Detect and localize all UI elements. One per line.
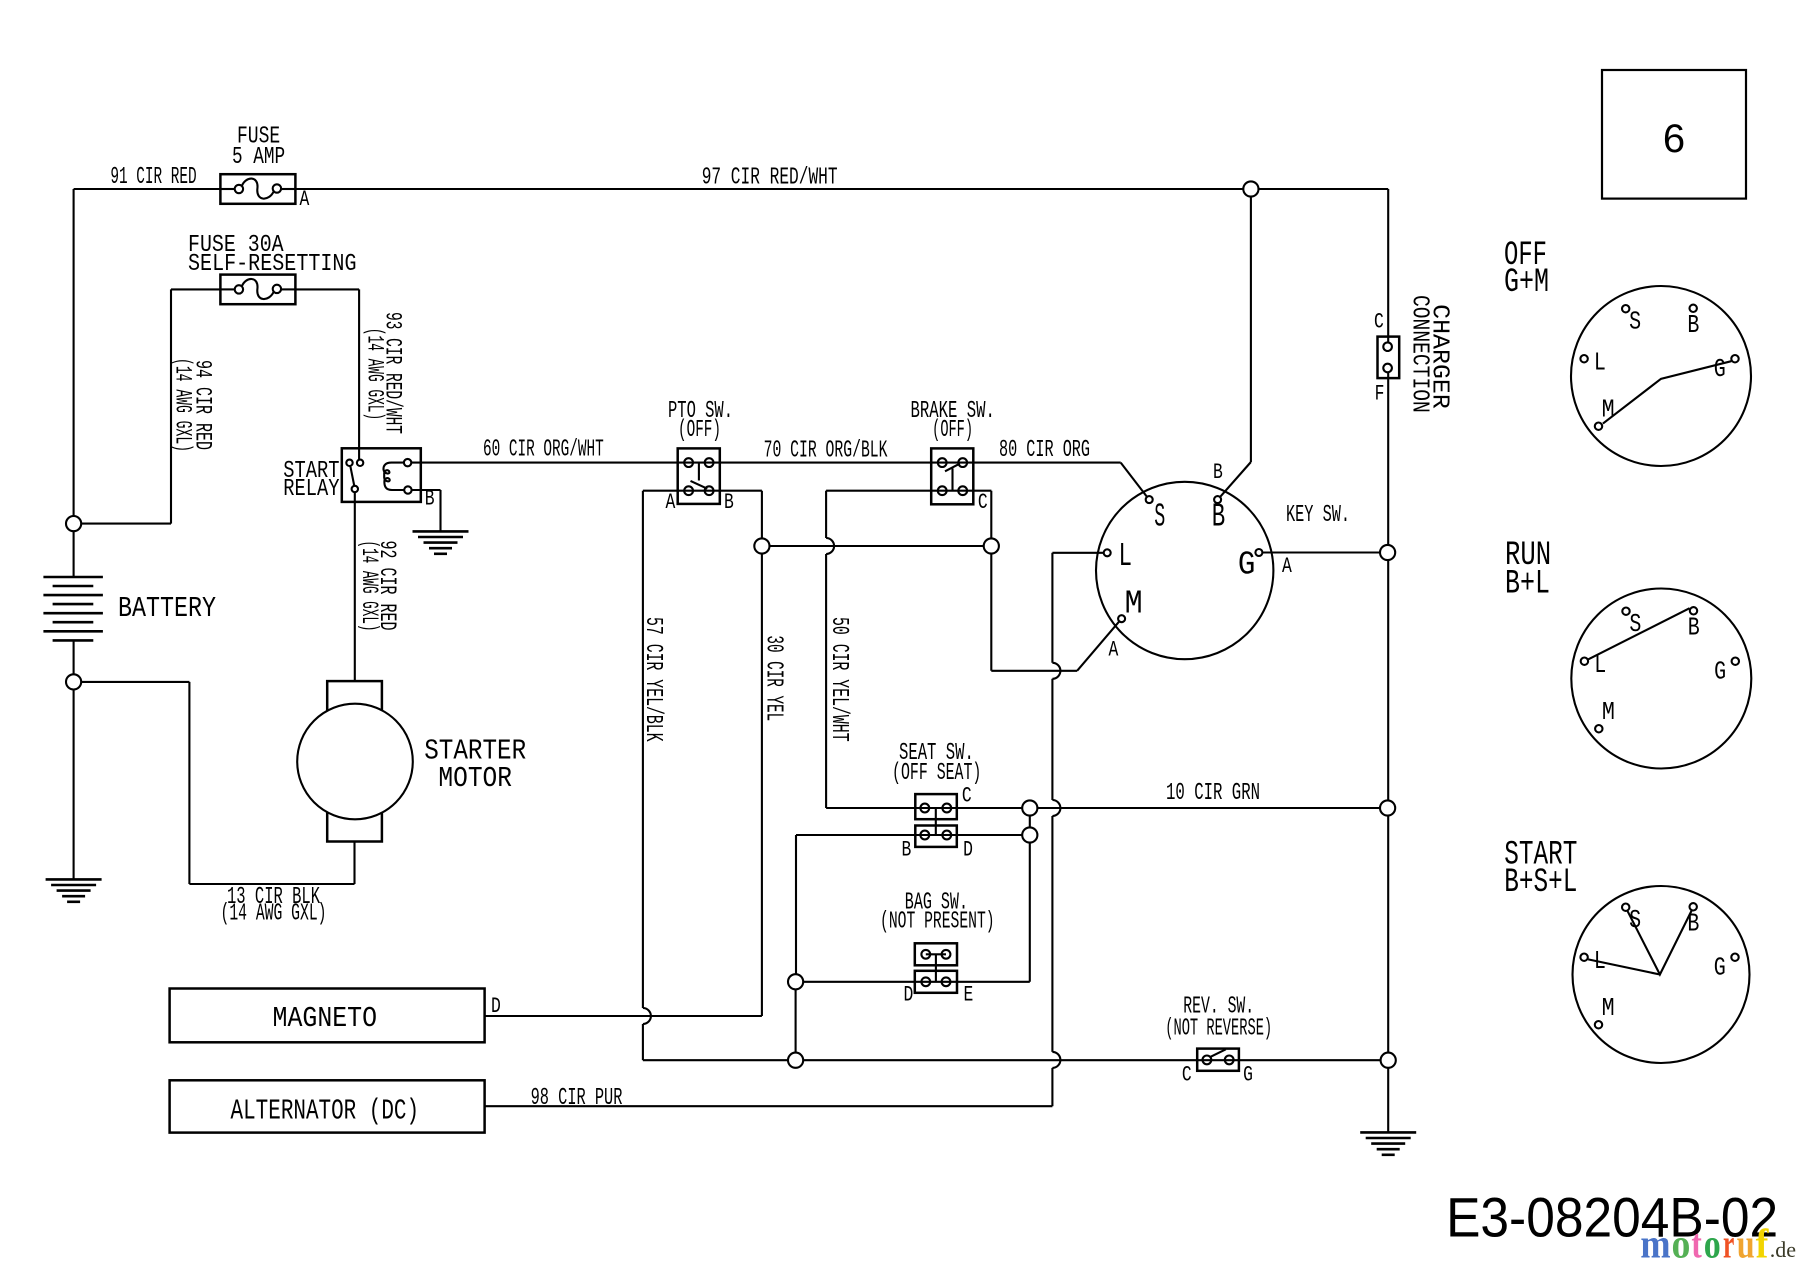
brake bottom row wire: [826, 490, 991, 492]
RUN terminal S: [1622, 608, 1629, 615]
svg-text:D: D: [963, 838, 973, 863]
RUN terminal B: [1690, 607, 1697, 614]
svg-text:G+M: G+M: [1504, 264, 1549, 302]
wire 10 CIR GRN row (seat C): [826, 807, 1388, 809]
svg-text:B+S+L: B+S+L: [1504, 864, 1577, 902]
wire 94 CIR RED horizontal: [74, 523, 171, 525]
svg-text:MOTOR: MOTOR: [438, 762, 512, 795]
wire 60 CIR ORG/WHT: [411, 462, 677, 464]
svg-text:B: B: [1687, 909, 1699, 939]
starter motor M1 body: [297, 704, 413, 820]
svg-text:(14 AWG GXL): (14 AWG GXL): [170, 358, 196, 452]
wire 70 CIR ORG/BLK: [720, 462, 931, 464]
brake top row wire: [931, 462, 973, 464]
bag internal link: [935, 954, 937, 982]
brake pin C (bottom-right): [958, 486, 967, 495]
junction 10 CIR GRN / right bus: [1380, 800, 1395, 815]
brake pin bottom-left: [938, 486, 947, 495]
charger pin F: [1383, 364, 1392, 373]
key terminal S: [1146, 496, 1153, 503]
key switch body circle: [1096, 482, 1273, 659]
brake pin top-right: [958, 458, 967, 467]
svg-text:C: C: [978, 490, 988, 515]
wire 57 hop over magneto wire: [643, 1008, 651, 1024]
PTO pin A (bottom-left): [684, 486, 693, 495]
seat pin top-left: [920, 804, 929, 813]
svg-text:L: L: [1594, 347, 1606, 377]
bag pin D (bottom-left): [921, 977, 930, 986]
wire right bus upper (to charger C): [1387, 189, 1389, 343]
svg-text:BATTERY: BATTERY: [118, 592, 216, 625]
wire 50 CIR YEL/WHT upper: [825, 491, 827, 538]
svg-text:6: 6: [1663, 117, 1685, 161]
junction seat D row / bag E drop: [1022, 827, 1037, 842]
key position circle OFF: [1571, 286, 1751, 466]
wire brake-C down to M row: [990, 491, 992, 671]
svg-text:u: u: [1737, 1221, 1755, 1267]
brake internal link: [951, 468, 953, 490]
key terminal L: [1104, 549, 1111, 556]
alternator box: [170, 1080, 485, 1132]
wire right bus lower (charger F to ground): [1387, 372, 1389, 1132]
wire L hop over rev row: [1052, 1052, 1060, 1068]
svg-text:(OFF): (OFF): [678, 417, 721, 444]
svg-text:A: A: [666, 490, 676, 515]
wire 13 CIR BLK h1: [74, 681, 190, 683]
wire 98 CIR PUR: [485, 1105, 1052, 1107]
svg-text:97 CIR RED/WHT: 97 CIR RED/WHT: [702, 165, 838, 192]
svg-text:A: A: [300, 187, 310, 212]
RUN terminal G: [1732, 658, 1739, 665]
wire 57 CIR YEL/BLK vertical upper: [642, 491, 644, 1008]
relay contact pin (fixed): [346, 460, 352, 466]
svg-text:G: G: [1243, 1063, 1253, 1088]
svg-text:60 CIR ORG/WHT: 60 CIR ORG/WHT: [483, 436, 604, 463]
svg-text:10 CIR GRN: 10 CIR GRN: [1166, 780, 1260, 807]
svg-text:(14 AWG GXL): (14 AWG GXL): [221, 901, 327, 928]
svg-text:KEY SW.: KEY SW.: [1286, 502, 1350, 529]
svg-text:50 CIR YEL/WHT: 50 CIR YEL/WHT: [825, 617, 852, 742]
svg-text:t: t: [1691, 1221, 1702, 1267]
svg-text:5 AMP: 5 AMP: [232, 144, 285, 171]
OFF contact line G+M: [1603, 361, 1731, 423]
svg-text:80 CIR ORG: 80 CIR ORG: [999, 437, 1090, 464]
svg-text:C: C: [962, 784, 972, 809]
svg-text:L: L: [1119, 538, 1133, 575]
PTO pin top-left: [684, 458, 693, 467]
rev pin C: [1203, 1056, 1212, 1065]
wire M row horizontal: [991, 670, 1077, 672]
key terminal G: [1255, 549, 1262, 556]
svg-text:70 CIR ORG/BLK: 70 CIR ORG/BLK: [764, 438, 888, 465]
wire 94 CIR RED vertical: [170, 289, 172, 523]
bag top row link: [926, 953, 946, 955]
svg-text:B: B: [902, 838, 912, 863]
junction key A / right bus: [1380, 545, 1395, 560]
wire 13 CIR BLK v: [188, 682, 190, 884]
svg-text:(14 AWG GXL): (14 AWG GXL): [356, 541, 382, 632]
START terminal L: [1580, 954, 1587, 961]
RUN contact line B+L: [1588, 608, 1690, 659]
svg-text:M: M: [1602, 993, 1615, 1023]
OFF terminal M: [1595, 423, 1602, 430]
PTO switch blade (open): [691, 481, 708, 489]
svg-text:f: f: [1756, 1221, 1770, 1267]
brake switch S2 box: [931, 448, 973, 504]
wire 93 CIR RED/WHT horizontal: [295, 288, 359, 290]
wire 50 hop over 546 row: [826, 538, 834, 554]
junction bag D row / 57 row riser: [788, 974, 803, 989]
svg-text:57 CIR YEL/BLK: 57 CIR YEL/BLK: [639, 617, 666, 742]
starter motor M1 frame: [327, 681, 382, 841]
svg-text:98 CIR PUR: 98 CIR PUR: [531, 1085, 623, 1112]
wire relay pin B to ground h: [412, 489, 441, 491]
bag pin top-right: [942, 950, 951, 959]
wire battery positive drop: [73, 189, 75, 577]
PTO switch S1 box: [678, 448, 720, 504]
wire 92 CIR RED (relay to starter): [354, 492, 356, 681]
junction magneto row / riser: [788, 1053, 803, 1068]
relay switch blade: [350, 466, 354, 486]
brake pin top-left: [938, 458, 947, 467]
PTO pin top-right: [705, 458, 714, 467]
svg-text:B: B: [1212, 498, 1226, 535]
wire 91 CIR RED (battery + to fuse): [74, 188, 221, 190]
junction battery - / 13 CIR BLK: [66, 674, 81, 689]
svg-text:(14 AWG GXL): (14 AWG GXL): [362, 328, 388, 420]
svg-text:MAGNETO: MAGNETO: [273, 1002, 378, 1035]
PTO internal link: [698, 463, 700, 481]
svg-text:G: G: [1714, 657, 1726, 687]
PTO top row wire: [678, 462, 720, 464]
START terminal M: [1595, 1021, 1602, 1028]
svg-text:o: o: [1704, 1221, 1721, 1267]
wire 13 CIR BLK h2: [189, 883, 354, 885]
svg-text:G: G: [1714, 953, 1726, 983]
svg-text:M: M: [1125, 586, 1143, 623]
reverse switch S5 box: [1197, 1049, 1239, 1071]
svg-text:30 CIR YEL: 30 CIR YEL: [760, 635, 787, 721]
svg-text:SELF-RESETTING: SELF-RESETTING: [188, 251, 357, 278]
relay coil pin top: [404, 459, 411, 466]
junction 97 row / key B: [1243, 181, 1258, 196]
magneto box: [170, 989, 485, 1043]
seat pin B (bottom-left): [920, 831, 929, 840]
ground (right bus): [1360, 1132, 1416, 1154]
svg-text:S: S: [1629, 905, 1641, 935]
OFF terminal L: [1580, 355, 1587, 362]
junction 30 CIR YEL / seat feed: [754, 538, 769, 553]
fuse F2 30A self-resetting: [220, 275, 295, 305]
RUN terminal M: [1595, 725, 1602, 732]
rev pin G: [1225, 1056, 1234, 1065]
brake switch blade (open): [945, 464, 960, 472]
wire 80 CIR ORG diagonal to key S: [1121, 463, 1147, 497]
svg-text:D: D: [904, 983, 914, 1008]
wire L vertical seg2: [1051, 679, 1053, 800]
wire 57 CIR YEL/BLK vertical lower: [642, 1024, 644, 1060]
svg-text:F: F: [1375, 382, 1385, 407]
START terminal S: [1622, 904, 1629, 911]
svg-text:B: B: [1688, 613, 1700, 643]
svg-text:RELAY: RELAY: [283, 476, 339, 503]
wire key B drop from 97 row: [1250, 189, 1252, 462]
wire key G to charger line (A): [1262, 551, 1388, 553]
wire 57 to junction with magneto row: [643, 1059, 796, 1061]
relay contact pin (input 93): [357, 460, 363, 466]
svg-text:G: G: [1238, 546, 1256, 583]
wire L vertical seg4: [1051, 1068, 1053, 1106]
wire 80 CIR ORG: [973, 462, 1120, 464]
charger connection plug box: [1378, 337, 1400, 379]
START contact lines B+S: [1627, 911, 1691, 975]
wire 93 CIR RED/WHT vertical: [358, 289, 360, 459]
junction battery + / 94 CIR RED: [66, 516, 81, 531]
wire relay pin B to ground v: [439, 490, 441, 531]
relay contact pin (output 92): [352, 486, 358, 492]
junction rev G / right bus: [1381, 1053, 1396, 1068]
key position circle START: [1573, 886, 1750, 1063]
wire PTO-B to brake-C row: [762, 545, 991, 547]
svg-text:E: E: [964, 983, 974, 1008]
bag bottom row wire (D-E): [796, 981, 1030, 983]
svg-text:r: r: [1723, 1221, 1734, 1267]
ground (start relay): [413, 531, 469, 553]
wire rev G to ground line: [1239, 1059, 1388, 1061]
junction seat C row / bag E drop: [1022, 800, 1037, 815]
svg-text:B: B: [1213, 460, 1223, 485]
svg-text:(NOT PRESENT): (NOT PRESENT): [880, 909, 995, 936]
svg-text:S: S: [1629, 307, 1641, 337]
wire 30 CIR YEL vertical: [761, 491, 763, 1016]
wire key B diagonal: [1220, 462, 1251, 497]
seat pin D (bottom-right): [942, 831, 951, 840]
key terminal M: [1118, 615, 1125, 622]
charger pin C: [1383, 342, 1392, 351]
OFF terminal G: [1731, 355, 1738, 362]
RUN terminal L: [1581, 658, 1588, 665]
wire magneto D to 30 CIR YEL: [485, 1015, 762, 1017]
wire 97 CIR RED/WHT: [295, 188, 1388, 190]
wire diagonal to key M: [1077, 622, 1119, 671]
wire bag D junction down to magneto row: [795, 982, 797, 1060]
relay coil pin bottom: [404, 486, 411, 493]
seat pin C (top-right): [942, 804, 951, 813]
ground (battery negative): [46, 879, 102, 901]
bag pin top-left: [921, 950, 930, 959]
seat lower row wire (B-D): [796, 834, 1030, 836]
svg-text:m: m: [1640, 1221, 1670, 1267]
wire L hop over 10 CIR GRN row: [1052, 800, 1060, 816]
relay coil winding: [383, 463, 404, 490]
svg-text:B: B: [425, 487, 435, 512]
wire magneto row to rev switch: [796, 1059, 1198, 1061]
seat internal link: [935, 808, 937, 835]
wire to fuse F2 left: [171, 288, 220, 290]
wire seat B to bag D vertical: [795, 835, 797, 982]
sheet number box: [1602, 70, 1746, 199]
START contact line L: [1588, 959, 1660, 974]
OFF terminal B: [1690, 305, 1697, 312]
wire key L horizontal: [1052, 552, 1103, 554]
bag pin E (bottom-right): [942, 977, 951, 986]
seat switch S3 upper box: [915, 794, 957, 819]
bag switch S4 lower box: [915, 971, 957, 993]
logo motoruf.de: [1640, 1221, 1796, 1267]
wire battery negative drop: [73, 640, 75, 879]
svg-text:M: M: [1602, 697, 1615, 727]
PTO bottom row wire: [643, 490, 762, 492]
svg-text:G: G: [1714, 354, 1726, 384]
svg-text:S: S: [1154, 498, 1165, 535]
fuse F1 5 AMP: [220, 174, 295, 204]
svg-text:(NOT REVERSE): (NOT REVERSE): [1165, 1016, 1272, 1043]
svg-text:(OFF): (OFF): [932, 417, 973, 444]
svg-text:91 CIR RED: 91 CIR RED: [110, 164, 196, 191]
battery BT1: [43, 577, 103, 640]
svg-text:B: B: [724, 490, 734, 515]
svg-text:A: A: [1282, 554, 1292, 579]
seat switch S3 lower box: [915, 826, 957, 847]
key terminal B: [1214, 496, 1221, 503]
wire L vertical seg1: [1051, 553, 1053, 663]
svg-text:o: o: [1672, 1221, 1691, 1267]
START terminal G: [1731, 954, 1738, 961]
svg-text:A: A: [1109, 638, 1119, 663]
wire seat D to bag E vertical: [1029, 808, 1031, 982]
OFF terminal S: [1622, 305, 1629, 312]
rev row wire inside box: [1197, 1059, 1239, 1061]
rev switch blade (open): [1210, 1049, 1226, 1057]
PTO pin B (bottom-right): [705, 486, 714, 495]
key position circle RUN: [1571, 589, 1751, 769]
wire 50 CIR YEL/WHT lower: [825, 554, 827, 808]
junction brake-C / row 546: [984, 538, 999, 553]
wire 13 CIR BLK to starter: [353, 842, 355, 885]
svg-text:C: C: [1182, 1063, 1192, 1088]
svg-text:CONNECTION: CONNECTION: [1405, 295, 1432, 413]
wire L vertical seg3: [1051, 816, 1053, 1052]
wire L hop over M row: [1052, 663, 1060, 679]
svg-text:B+L: B+L: [1505, 566, 1550, 604]
svg-text:ALTERNATOR (DC): ALTERNATOR (DC): [231, 1094, 420, 1127]
svg-text:.de: .de: [1770, 1237, 1796, 1262]
svg-text:C: C: [1374, 310, 1384, 335]
bag switch S4 upper box: [915, 943, 957, 965]
start relay K1 box: [342, 448, 421, 502]
svg-text:B: B: [1687, 310, 1699, 340]
START terminal B: [1690, 903, 1697, 910]
